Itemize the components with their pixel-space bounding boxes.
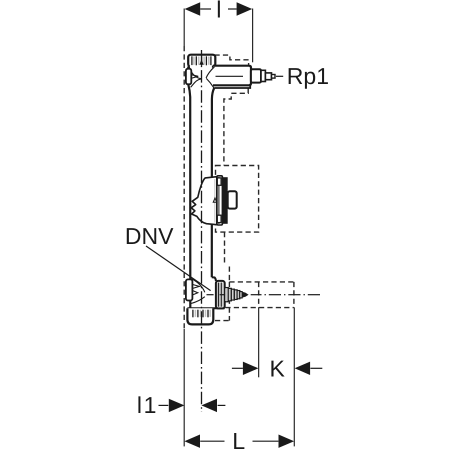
- top left tab (meter coupling lug): [186, 69, 191, 85]
- flow arrow in pipe: [199, 59, 203, 65]
- socket thread ribs: [193, 310, 208, 318]
- knob grip shading: [214, 179, 216, 223]
- barb neck: [240, 292, 242, 298]
- outlet nipple: [265, 73, 271, 80]
- dashed clearance box around valve knob: [216, 166, 259, 233]
- svg-text:l1: l1: [137, 392, 158, 418]
- knob tab bottom: [217, 215, 221, 222]
- knob triangle mark: [213, 198, 217, 202]
- dimension l (top): [185, 0, 253, 23]
- svg-text:L: L: [232, 428, 245, 450]
- socket shading: [195, 310, 210, 317]
- hose barb ring 4: [234, 290, 237, 300]
- dashed hidden outline above outlet: [215, 55, 249, 65]
- knob flange bar: [222, 177, 227, 224]
- dimension L: [184, 428, 294, 450]
- barb centerline (horizontal dash-dot): [207, 294, 321, 296]
- interior fillet curves of T-junction: [189, 67, 214, 88]
- vertical pipe fill mask: [190, 65, 212, 308]
- dashed hidden corner below flange: [215, 308, 229, 321]
- drain tab (left): [186, 279, 193, 300]
- svg-text:Rp1: Rp1: [287, 63, 329, 89]
- outlet centerline (horizontal): [216, 75, 244, 77]
- dashed line from knob box down to barb box: [225, 232, 230, 282]
- svg-text:DNV: DNV: [125, 223, 174, 249]
- valve body step to flange: [212, 277, 216, 308]
- valve internal curves: [191, 279, 205, 304]
- dashed hidden outline below outlet down to knob box: [224, 88, 248, 165]
- knob grip disc: [191, 177, 217, 225]
- nut shading: [194, 57, 209, 65]
- dashed clearance box around drain barb: [217, 282, 294, 308]
- outlet second step: [261, 70, 265, 81]
- hose barb ring 3: [231, 289, 234, 300]
- outlet tip: [272, 75, 276, 79]
- svg-text:K: K: [270, 356, 286, 382]
- pipe left edge: [188, 67, 190, 309]
- pipe right edge: [212, 88, 214, 277]
- hose barb ring 2: [228, 288, 231, 300]
- K extension line left, x=258.65: [258, 308, 260, 378]
- Rp1 outlet cylinder: [213, 66, 251, 86]
- dimension K: [232, 356, 322, 382]
- leader line from DNV to drain valve: [146, 246, 211, 291]
- extension line left (dimension l / l1 / L), x=184: [183, 9, 185, 447]
- valve body bottom edge: [187, 307, 224, 309]
- drain tab pointers: [193, 285, 200, 295]
- barb tip: [242, 292, 248, 298]
- outlet flange step: [251, 69, 261, 82]
- pipe centerline (vertical dash-dot): [201, 50, 203, 412]
- extension line right of dimension l, x=252.6: [252, 9, 254, 63]
- knob plate: [217, 176, 223, 225]
- top tab pointer: [192, 75, 198, 78]
- svg-text:l: l: [216, 0, 221, 23]
- hose barb ring 1: [225, 288, 229, 302]
- outlet underside slab: [214, 85, 250, 88]
- union nut ribs: [192, 56, 211, 65]
- socket (bottom): [187, 308, 213, 324]
- barb rings shading: [226, 288, 238, 301]
- dimension l1: [137, 392, 226, 418]
- K / L extension line right, x=294.3: [293, 308, 295, 447]
- union nut (top): [188, 55, 215, 67]
- knob stem: [228, 191, 237, 208]
- hose barb ring 5: [237, 291, 240, 299]
- knob tab top: [217, 178, 221, 185]
- barb flange: [216, 281, 225, 309]
